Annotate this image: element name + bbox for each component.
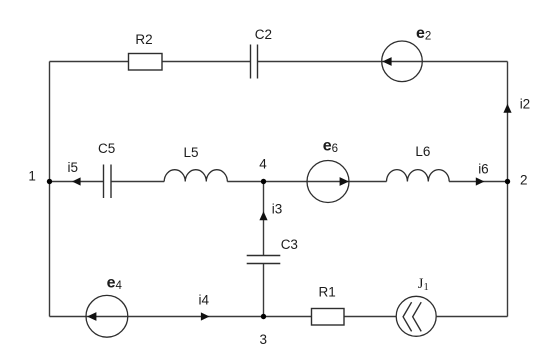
wire C2 right plate to top-right corner (through e2) (258, 61, 508, 63)
current source J1 (circle) (396, 296, 436, 336)
J1 chevron left (403, 302, 412, 331)
resistor R2 (129, 54, 163, 71)
source e6 arrow (340, 177, 349, 186)
svg-text:R2: R2 (135, 32, 152, 47)
wire right vertical (node 2 branch) (507, 62, 509, 317)
wire R2 to C2 left plate (162, 61, 251, 63)
node 4 (261, 179, 266, 184)
source e4 (circle) (86, 295, 128, 337)
wire left vertical (node 1 branch) (49, 62, 51, 317)
J1 chevron right (413, 302, 422, 331)
svg-text:L6: L6 (415, 144, 430, 159)
svg-text:J1: J1 (418, 276, 429, 293)
wire node 1 to C5 (50, 181, 104, 183)
arrow i4 (201, 312, 210, 320)
wire C3 to node 3 (263, 264, 265, 317)
wire top-left to R2 (50, 61, 129, 63)
svg-text:i2: i2 (520, 96, 531, 111)
inductor L6 (387, 170, 450, 182)
source e4 arrow (87, 312, 96, 321)
wire node 4 to C3 (263, 182, 265, 256)
node 1 (47, 179, 52, 184)
arrow i2 (503, 104, 511, 113)
source e6 (circle) (307, 161, 349, 203)
svg-text:i3: i3 (272, 201, 283, 216)
wire J1 to bottom-right corner (437, 316, 508, 318)
source e2 arrow (382, 57, 391, 66)
svg-text:e4: e4 (107, 275, 123, 293)
resistor R1 (312, 309, 345, 326)
arrow i5 (72, 177, 81, 185)
svg-text:C2: C2 (255, 27, 272, 42)
capacitor C3 (247, 256, 281, 264)
svg-text:e6: e6 (323, 138, 338, 156)
node 3 (261, 314, 266, 319)
svg-text:2: 2 (520, 173, 528, 188)
arrow i3 (259, 211, 267, 220)
capacitor C5 (104, 165, 112, 199)
source e2 (circle) (382, 41, 423, 82)
wire R1 to J1 (344, 316, 396, 318)
svg-text:i6: i6 (478, 161, 489, 176)
svg-text:C5: C5 (98, 141, 115, 156)
arrow i6 (476, 177, 485, 185)
wire L6 to node 2 (449, 181, 507, 183)
wire bottom-left to R1 (through e4) (50, 316, 312, 318)
svg-text:4: 4 (259, 157, 267, 172)
capacitor C2 (251, 45, 258, 79)
svg-text:3: 3 (260, 332, 268, 347)
svg-text:i4: i4 (199, 292, 210, 307)
wire L5 to L6 (through node 4 and e6) (227, 181, 386, 183)
inductor L5 (164, 170, 227, 182)
svg-text:1: 1 (28, 169, 36, 184)
node 2 (505, 179, 510, 184)
svg-text:L5: L5 (184, 145, 199, 160)
svg-text:R1: R1 (319, 284, 336, 299)
svg-text:i5: i5 (68, 160, 79, 175)
svg-text:C3: C3 (281, 237, 298, 252)
svg-text:e2: e2 (416, 25, 431, 43)
wire C5 to L5 (111, 181, 164, 183)
